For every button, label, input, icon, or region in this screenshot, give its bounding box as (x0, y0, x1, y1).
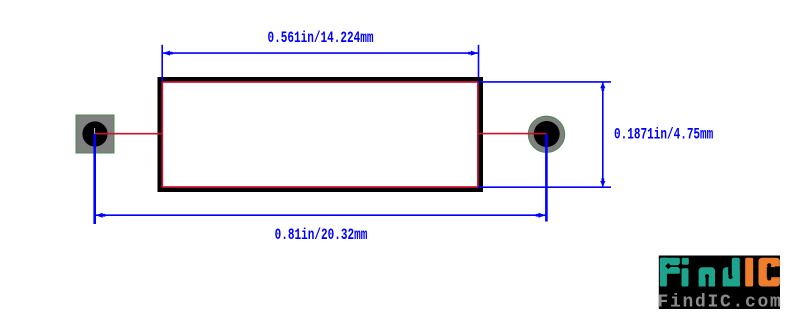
arrowhead right (471, 51, 478, 56)
logo letter I (745, 258, 753, 287)
component body outline (160, 79, 481, 190)
lead wire left (red) (95, 133, 163, 135)
FindIC logo (658, 256, 783, 313)
dimension text right (614, 126, 713, 145)
pad 2 (round pad) (528, 116, 564, 152)
body silkscreen rectangle (red) (162, 82, 478, 187)
logo letter i (682, 258, 689, 287)
logo letter d (723, 258, 740, 287)
arrowhead left (96, 213, 103, 218)
arrowhead down (600, 181, 605, 187)
svg-text:FindIC.com: FindIC.com (658, 293, 783, 313)
dimension text bottom (275, 226, 368, 245)
logo letter F (660, 258, 680, 287)
extension line from pad 2 center (545, 134, 548, 222)
logo letter C (759, 258, 780, 287)
lead wire right (red) (478, 133, 547, 135)
extension line right-bottom (478, 186, 611, 188)
svg-text:0.1871in/4.75mm: 0.1871in/4.75mm (614, 126, 713, 145)
dimension: top width 0.561in/14.224mm (162, 45, 478, 82)
extension line from pad 1 center (93, 134, 96, 224)
svg-text:0.81in/20.32mm: 0.81in/20.32mm (275, 226, 368, 245)
logo background (659, 256, 780, 310)
arrowhead up (600, 82, 605, 88)
extension line top-right (478, 45, 480, 77)
dimension: bottom pitch 0.81in/20.32mm (95, 134, 547, 224)
dimension line top (163, 52, 478, 54)
extension line right-top (478, 81, 611, 83)
dimension text top (268, 29, 374, 48)
logo letter n (699, 267, 715, 286)
svg-text:0.561in/14.224mm: 0.561in/14.224mm (268, 29, 374, 48)
dimension line right (602, 83, 604, 187)
dimension line bottom (96, 214, 546, 216)
extension line top-left (161, 45, 163, 82)
arrowhead right (539, 213, 546, 218)
dimension: right height 0.1871in/4.75mm (478, 82, 611, 187)
arrowhead left (163, 51, 170, 56)
pad 1 (square pad) (76, 115, 114, 153)
